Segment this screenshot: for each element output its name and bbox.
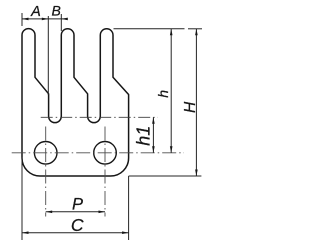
top extension line for h/H	[114, 28, 185, 30]
centerline vertical hole 2 / P extension	[104, 127, 106, 217]
arrow A left	[22, 18, 29, 21]
svg-text:h1: h1	[133, 126, 153, 146]
extension line B right	[60, 14, 62, 31]
extension line A left	[21, 13, 23, 26]
hole 2	[94, 142, 117, 165]
dimension h1	[152, 117, 154, 153]
part outline: fork plate with 3 prongs	[22, 29, 129, 176]
centerline vertical hole 1 / P extension	[45, 127, 47, 217]
svg-text:C: C	[71, 215, 84, 235]
centerline horizontal through holes	[12, 152, 184, 154]
dimension line A/B	[22, 18, 67, 20]
svg-text:A: A	[30, 4, 41, 20]
svg-text:B: B	[52, 3, 61, 19]
dimension H	[195, 29, 197, 176]
arrow A right / B left	[42, 18, 49, 21]
C extension left	[21, 157, 23, 240]
chain line through slot bottoms (h1 reference)	[41, 116, 158, 118]
svg-text:P: P	[72, 195, 83, 213]
dimension C	[22, 232, 129, 234]
bottom extension line for H	[129, 175, 202, 177]
arrow B right (outside)	[61, 18, 68, 21]
C extension right	[128, 176, 130, 240]
extension line A/B middle	[47, 16, 49, 95]
dimension P	[46, 211, 105, 213]
hole 1	[34, 142, 57, 165]
svg-text:H: H	[182, 101, 199, 113]
dimension h	[170, 29, 172, 153]
svg-text:h: h	[155, 90, 171, 98]
